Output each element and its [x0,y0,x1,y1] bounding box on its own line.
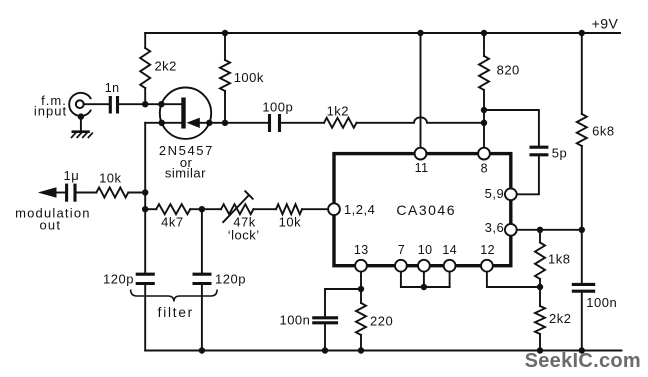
svg-text:‘lock’: ‘lock’ [228,228,260,243]
svg-text:CA3046: CA3046 [396,202,456,218]
svg-text:8: 8 [481,162,488,176]
svg-text:+9V: +9V [592,16,619,32]
svg-text:14: 14 [442,243,457,257]
svg-text:4k7: 4k7 [161,215,183,230]
svg-text:1,2,4: 1,2,4 [344,202,375,217]
svg-text:out: out [39,218,61,233]
svg-text:120p: 120p [103,272,134,287]
svg-text:100k: 100k [234,70,264,85]
svg-text:7: 7 [398,243,405,257]
svg-text:5p: 5p [552,146,567,161]
svg-text:13: 13 [354,243,369,257]
svg-text:11: 11 [415,161,429,175]
svg-text:2k2: 2k2 [154,59,176,74]
svg-text:10k: 10k [279,215,301,230]
svg-text:220: 220 [370,313,393,328]
svg-text:1k8: 1k8 [548,252,570,267]
svg-text:100n: 100n [279,312,310,327]
svg-text:6k8: 6k8 [592,124,614,139]
svg-text:5,9: 5,9 [485,186,505,201]
svg-text:120p: 120p [215,272,246,287]
svg-text:2k2: 2k2 [549,311,571,326]
svg-text:input: input [34,104,67,119]
svg-text:12: 12 [480,243,495,257]
svg-text:100p: 100p [262,99,293,114]
svg-text:1k2: 1k2 [327,103,349,118]
svg-text:similar: similar [165,166,206,181]
svg-text:100n: 100n [586,295,617,310]
svg-text:filter: filter [158,305,194,320]
svg-text:820: 820 [497,63,520,78]
svg-text:3,6: 3,6 [485,220,505,235]
svg-text:1μ: 1μ [64,168,80,183]
svg-text:10k: 10k [99,171,121,186]
svg-text:10: 10 [418,243,433,257]
svg-text:1n: 1n [105,81,120,95]
svg-text:SeekIC.com: SeekIC.com [525,350,641,372]
